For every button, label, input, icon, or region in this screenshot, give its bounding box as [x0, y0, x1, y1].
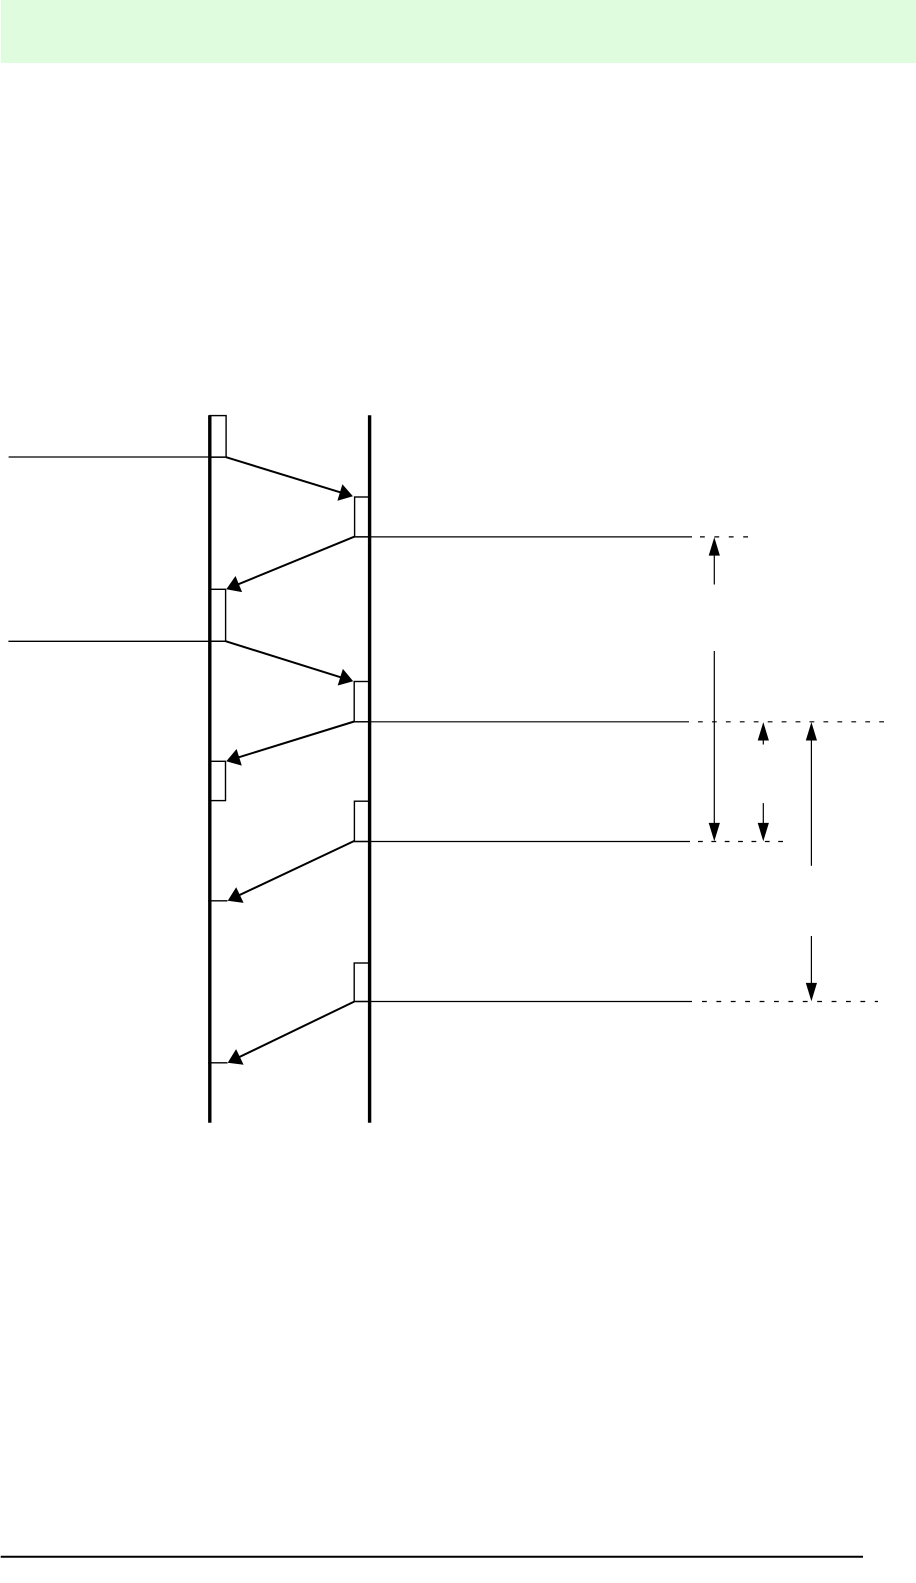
reference line level 2 solid: [354, 721, 689, 723]
activation box R4: [354, 963, 369, 1002]
dimension arrow A1 lower segment: [709, 651, 720, 841]
tick mark t-left 1: [208, 900, 227, 902]
wire: left margin line 1: [9, 456, 227, 458]
reference line level 2 dashed: [698, 721, 884, 723]
footer rule: [1, 1556, 863, 1558]
activation box L2: [210, 589, 226, 641]
activation box L1: [210, 416, 226, 458]
wire: left margin line 2: [8, 640, 225, 642]
activation box R1: [355, 497, 370, 537]
dimension arrow A2 lower segment: [758, 803, 769, 841]
reference line level 3 dashed: [698, 841, 783, 843]
dimension arrow A1 upper segment: [709, 537, 720, 584]
reference line level 1 solid: [355, 536, 692, 538]
message arrow M4 right to left: [226, 722, 354, 766]
activation box R3: [354, 801, 369, 841]
message arrow M1 left to right: [226, 457, 353, 501]
lifeline right: [368, 415, 371, 1123]
reference line level 3 solid: [354, 841, 690, 843]
reference line level 1 dashed: [700, 536, 748, 538]
dimension arrow A3 lower segment: [806, 936, 817, 1001]
message arrow M5 right to left: [228, 841, 355, 903]
dimension arrow A2 upper segment: [758, 722, 769, 744]
dimension arrow A3 upper segment: [806, 722, 817, 866]
message arrow M6 right to left: [228, 1002, 355, 1065]
activation box R2: [354, 682, 369, 722]
message arrow M3 left to right: [226, 641, 354, 685]
header band: [1, 0, 916, 63]
activation box L3: [210, 761, 226, 800]
reference line level 4 solid: [354, 1001, 692, 1003]
tick mark t-left 2: [208, 1062, 227, 1064]
message arrow M2 right to left: [226, 537, 354, 593]
reference line level 4 dashed: [702, 1001, 878, 1003]
lifeline left: [208, 415, 211, 1123]
